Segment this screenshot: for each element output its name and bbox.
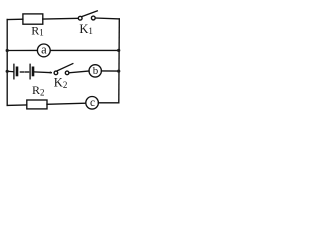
meter c: [86, 97, 99, 110]
svg-text:K1: K1: [79, 22, 93, 36]
meter b: [89, 65, 101, 77]
node junction left row3: [6, 70, 9, 73]
wire bottom right to circle c: [98, 102, 118, 104]
switch K1: [78, 11, 97, 20]
meter a: [37, 44, 50, 57]
wire K2 to meter b: [69, 71, 89, 73]
wire top-left horizontal: [7, 18, 23, 20]
node pivot K2: [49, 71, 51, 73]
wire b to right frame: [101, 70, 118, 72]
node junction right row2: [117, 49, 120, 52]
wire dashed between cells: [20, 71, 28, 73]
resistor R1: [23, 14, 43, 24]
wire row2 left: [7, 49, 37, 51]
wire left frame vertical: [6, 20, 8, 106]
svg-text:a: a: [41, 42, 47, 56]
switch K2: [54, 64, 73, 75]
svg-text:R1: R1: [31, 23, 44, 37]
wire right frame vertical: [118, 19, 121, 103]
svg-text:R2: R2: [32, 83, 45, 97]
wire battery to K2: [34, 71, 51, 74]
svg-text:b: b: [93, 65, 99, 77]
wire R1 to K1: [43, 17, 79, 20]
resistor R2: [27, 100, 47, 109]
wire row3 left to battery: [7, 70, 13, 72]
svg-text:c: c: [90, 97, 95, 109]
node junction left row2: [6, 49, 9, 52]
node junction right row3: [117, 70, 120, 73]
wire row2 right: [50, 49, 119, 51]
battery cell 2: [30, 64, 33, 79]
wire K1 to top-right corner: [95, 17, 119, 20]
wire c to R2: [47, 103, 86, 104]
battery cell 1: [14, 64, 17, 79]
wire R2 to bottom-left corner: [7, 104, 27, 107]
svg-text:K2: K2: [54, 76, 68, 90]
